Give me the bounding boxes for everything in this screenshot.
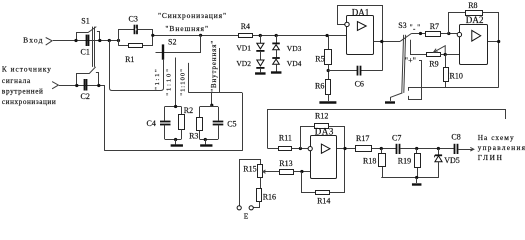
svg-text:VD3: VD3 [287, 44, 302, 53]
svg-text:R5: R5 [315, 55, 324, 64]
svg-text:R18: R18 [363, 157, 376, 166]
svg-text:R10: R10 [450, 72, 463, 81]
svg-text:DA3: DA3 [315, 126, 334, 136]
svg-text:К источнику: К источнику [2, 66, 51, 74]
svg-text:C7: C7 [392, 133, 401, 142]
svg-text:R1: R1 [125, 55, 134, 64]
svg-text:VD5: VD5 [444, 156, 460, 165]
svg-text:Е: Е [244, 212, 249, 221]
svg-text:C3: C3 [129, 15, 138, 24]
svg-text:R12: R12 [315, 111, 328, 120]
svg-text:R19: R19 [398, 157, 411, 166]
svg-text:C2: C2 [81, 92, 90, 101]
svg-text:DA1: DA1 [352, 8, 369, 18]
svg-text:C1: C1 [81, 47, 90, 56]
svg-text:R2: R2 [184, 106, 193, 115]
svg-text:R8: R8 [468, 1, 477, 10]
svg-text:C8: C8 [451, 133, 460, 142]
svg-text:DA2: DA2 [466, 15, 484, 25]
svg-text:VD1: VD1 [236, 43, 251, 52]
svg-text:управления: управления [478, 143, 525, 152]
svg-text:сигнала: сигнала [2, 77, 31, 85]
svg-text:R11: R11 [279, 134, 292, 143]
svg-text:C6: C6 [355, 80, 364, 89]
svg-text:R15: R15 [243, 165, 256, 174]
svg-text:"+": "+" [405, 56, 416, 65]
svg-text:VD2: VD2 [236, 59, 251, 68]
svg-text:": " [417, 23, 420, 31]
svg-text:"Внутренняя": "Внутренняя" [211, 41, 218, 92]
svg-text:R9: R9 [429, 60, 438, 69]
svg-text:синхронизации: синхронизации [2, 98, 56, 106]
svg-text:врутренней: врутренней [2, 88, 43, 96]
svg-text:На схему: На схему [478, 133, 514, 142]
svg-text:C4: C4 [147, 119, 156, 128]
svg-text:R14: R14 [317, 197, 330, 206]
svg-text:VD4: VD4 [287, 59, 302, 68]
svg-text:R6: R6 [315, 82, 324, 91]
svg-text:R3: R3 [189, 132, 198, 141]
svg-text:S3: S3 [398, 21, 406, 30]
svg-text:R13: R13 [279, 159, 292, 168]
svg-text:R7: R7 [430, 22, 439, 31]
svg-text:R16: R16 [263, 193, 276, 202]
svg-text:"Внешняя": "Внешняя" [165, 24, 208, 33]
svg-text:S1: S1 [81, 16, 89, 25]
svg-text:S2: S2 [168, 37, 176, 46]
svg-text:R4: R4 [241, 22, 250, 31]
svg-text:C5: C5 [227, 120, 236, 129]
svg-text:R17: R17 [356, 134, 369, 143]
svg-text:"Синхронизация": "Синхронизация" [158, 11, 226, 20]
